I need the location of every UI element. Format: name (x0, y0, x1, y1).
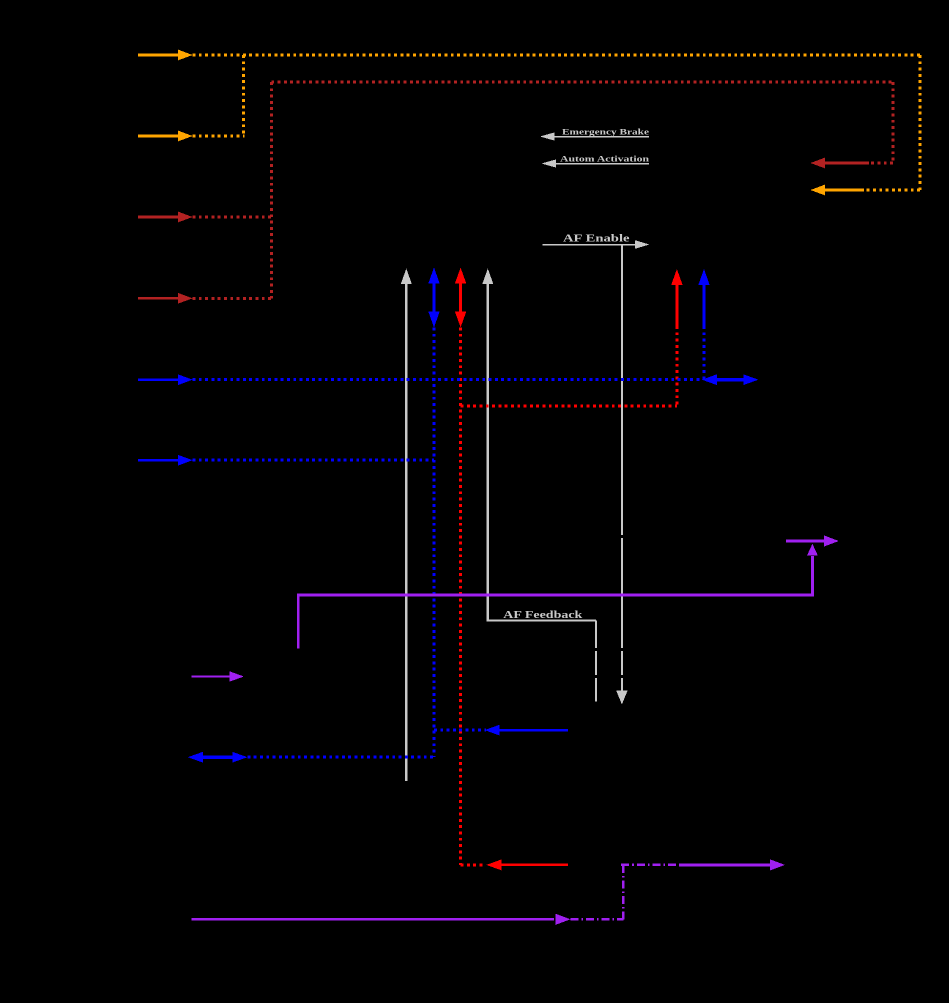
svg-text:AF Feedback: AF Feedback (503, 610, 583, 621)
wire purple bottom long arrow (y 916.4) (192, 914, 624, 925)
wire orange right vertical (919, 55, 922, 190)
wire red horizontal bottom with left arrow (y 864.3) (461, 860, 568, 871)
wire blue double arrow (y 757.2) (188, 752, 434, 763)
wire blue vertical double arrow (x 434) (428, 268, 439, 758)
svg-text:Autom Activation: Autom Activation (560, 154, 649, 164)
wire blue horizontal 1 (y 379.7) (138, 374, 700, 385)
svg-text:Emergency Brake: Emergency Brake (562, 127, 649, 137)
wire purple dash-dot right with arrow (y 864.2) (621, 859, 785, 870)
wire purple dash-dot vertical (x 623.4) (622, 865, 624, 919)
node notch on AF Enable line (invisible box edge) (620, 535, 624, 538)
label Autom Activation with left arrow (542, 154, 650, 168)
node notch on AF Feedback line 2 (594, 675, 598, 678)
wire purple top-right arrow (786, 535, 839, 546)
svg-text:AF Enable: AF Enable (563, 234, 630, 245)
wire blue up arrow (x 704) (698, 269, 709, 380)
wire blue arrow left (y 730) (434, 725, 568, 736)
wire gray long vertical up arrow (left) (401, 269, 412, 782)
wire purple long horizontal (y 595.2) (297, 594, 812, 597)
wire blue double horizontal arrow (right) (702, 374, 759, 385)
wire orange right arrow into box (811, 185, 921, 196)
wire darkred right vertical (892, 82, 895, 163)
wire darkred left vertical (270, 82, 273, 298)
wire darkred arrow 2 (138, 293, 271, 304)
wire red vertical double arrow (x 460.6) (455, 268, 466, 865)
wire orange branch vertical (242, 55, 245, 136)
wire darkred top horizontal (271, 81, 893, 84)
label Emergency Brake with left arrow (540, 127, 649, 141)
wire purple left vertical (297, 594, 300, 649)
wire gray AF Enable vertical drop with down arrow (616, 245, 627, 705)
wire red up arrow (x 676.9) (671, 269, 682, 406)
wire orange top: arrow from left sensor (138, 50, 920, 61)
wire gray AF Feedback path with up arrow (482, 269, 596, 702)
wire darkred arrow 1 (138, 212, 271, 223)
label AF Enable with right arrow (543, 234, 650, 249)
wire purple mid-left arrow (192, 671, 244, 681)
wire blue horizontal 2 (y 459.3) (138, 455, 434, 466)
node notch on AF Enable line 2 (620, 648, 624, 651)
wire darkred right arrow into box (811, 158, 894, 169)
wire purple vertical with up arrow into line (807, 544, 818, 597)
node notch on AF Feedback line 1 (594, 648, 598, 651)
node notch on AF Enable line 3 (620, 675, 624, 678)
wire red horizontal dotted (y 405.9) (461, 404, 677, 407)
wire orange second arrow (138, 131, 245, 142)
